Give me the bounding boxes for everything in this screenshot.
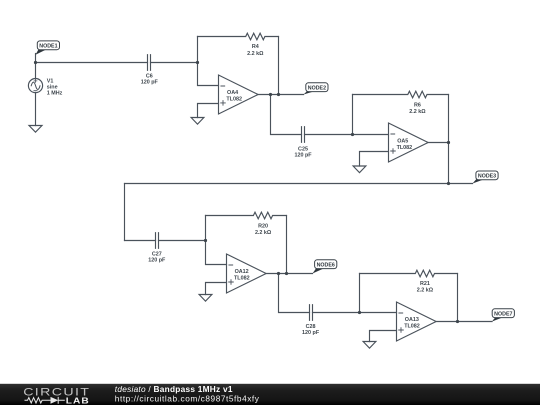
svg-text:OA12: OA12 (235, 269, 249, 275)
svg-text:TL082: TL082 (404, 324, 420, 330)
C25 value label (294, 146, 312, 158)
svg-text:C6: C6 (146, 73, 153, 79)
svg-text:2.2 kΩ: 2.2 kΩ (255, 230, 272, 236)
svg-text:1 MHz: 1 MHz (47, 90, 63, 96)
svg-text:2.2 kΩ: 2.2 kΩ (247, 51, 264, 57)
node NODE6 flag (313, 260, 337, 274)
capacitor C6 (148, 55, 151, 71)
node NODE2 flag (304, 83, 329, 95)
svg-text:C28: C28 (306, 324, 316, 330)
svg-text:TL082: TL082 (226, 97, 242, 103)
V1 value label (47, 78, 63, 96)
svg-text:OA4: OA4 (227, 90, 238, 96)
wire OA5 output (428, 142, 448, 144)
wire OA4 output to NODE2 (258, 94, 303, 96)
op-amp OA5 name label (397, 139, 413, 151)
svg-text:2.2 kΩ: 2.2 kΩ (417, 288, 434, 294)
wire OA13 output to NODE7 (436, 321, 492, 323)
wire OA5 inverting input vertical (353, 95, 389, 135)
op-amp OA13 name label (404, 317, 420, 329)
ground (OA13) (363, 342, 376, 349)
CircuitLab logo resistor-diode icon (25, 397, 65, 404)
svg-text:C25: C25 (298, 146, 308, 152)
wire NODE1 flag stem (35, 54, 37, 63)
svg-text:120 pF: 120 pF (148, 258, 166, 264)
R20 value label (255, 223, 272, 236)
wire stage-3 input (125, 240, 206, 242)
wire OA12 output to C28 branch (279, 274, 360, 313)
ground (OA4) (191, 118, 204, 125)
capacitor C27 (156, 233, 159, 249)
svg-text:OA13: OA13 (405, 317, 419, 323)
svg-text:NODE7: NODE7 (494, 312, 512, 318)
svg-text:NODE2: NODE2 (308, 86, 326, 92)
capacitor C28 (310, 305, 313, 321)
op-amp OA12 (227, 254, 267, 293)
R21 value label (417, 281, 434, 294)
svg-text:R20: R20 (258, 223, 268, 229)
ground (OA5) (353, 166, 366, 173)
ground (OA12) (199, 295, 212, 302)
node NODE3 flag (473, 171, 499, 184)
svg-text:LAB: LAB (66, 395, 90, 405)
node NODE7 flag (492, 309, 514, 322)
wire NODE3 to stage-3 vertical (124, 184, 126, 241)
svg-text:http://circuitlab.com/c8987t5f: http://circuitlab.com/c8987t5fb4xfy (115, 394, 260, 404)
CircuitLab logo wordmark (23, 385, 90, 398)
svg-text:120 pF: 120 pF (141, 80, 159, 86)
node NODE1 flag (36, 41, 60, 55)
svg-text:OA5: OA5 (397, 139, 408, 145)
wire OA12 inverting input vertical (206, 216, 227, 265)
voltage source V1 (35, 63, 37, 126)
ground (V1) (29, 126, 42, 133)
resistor R4 (198, 33, 279, 40)
wire OA4 inverting input vertical (198, 37, 219, 86)
node A junction dots (34, 61, 459, 323)
svg-text:TL082: TL082 (234, 275, 250, 281)
svg-text:R21: R21 (420, 281, 430, 287)
R4 value label (247, 44, 264, 57)
svg-text:tdesiato / Bandpass 1MHz v1: tdesiato / Bandpass 1MHz v1 (115, 384, 233, 394)
capacitor C25 (302, 127, 305, 143)
wire OA12 output to NODE6 (266, 273, 312, 275)
R6 value label (409, 103, 426, 116)
wire OA4 output to C25 branch (271, 95, 353, 135)
wire NODE3 horizontal run (125, 183, 473, 185)
svg-text:C27: C27 (152, 251, 162, 257)
op-amp OA13 (397, 302, 437, 341)
wire OA4 feedback right vertical (278, 37, 280, 95)
C6 value label (141, 73, 159, 85)
wire OA12 feedback right vertical (286, 216, 288, 274)
resistor R20 (206, 212, 287, 219)
wire OA5 non-inverting input (360, 152, 389, 167)
svg-text:R6: R6 (414, 103, 421, 109)
svg-text:NODE6: NODE6 (317, 263, 335, 269)
svg-text:NODE3: NODE3 (478, 174, 496, 180)
svg-text:2.2 kΩ: 2.2 kΩ (409, 109, 426, 115)
op-amp OA5 (389, 123, 429, 162)
svg-text:TL082: TL082 (397, 145, 413, 151)
op-amp OA4 name label (226, 90, 242, 102)
svg-text:R4: R4 (252, 44, 259, 50)
op-amp OA4 (219, 75, 259, 114)
C28 value label (302, 324, 320, 336)
wire OA5 feedback right vertical (448, 95, 450, 184)
wire OA13 non-inverting input (370, 331, 397, 342)
svg-text:NODE1: NODE1 (39, 44, 57, 50)
svg-text:120 pF: 120 pF (302, 330, 320, 336)
C27 value label (148, 251, 166, 263)
svg-text:120 pF: 120 pF (294, 153, 312, 159)
wire NODE1 horizontal run (36, 62, 198, 64)
resistor R6 (353, 91, 449, 98)
wire OA13 inverting input vertical (360, 274, 397, 313)
op-amp OA12 name label (234, 269, 250, 281)
resistor R21 (360, 270, 458, 277)
wire OA12 non-inverting input (206, 283, 227, 295)
wire OA4 non-inverting input (198, 104, 219, 118)
wire OA13 feedback right vertical (457, 274, 459, 322)
